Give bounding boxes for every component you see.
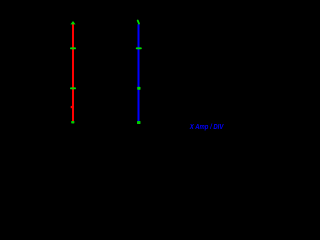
red vector V1 side notch marker: [71, 106, 73, 108]
red vector V1 (left vertical line): [72, 24, 74, 121]
red vector V1 tick mark 1: [70, 47, 76, 49]
blue vector V2 base square (green): [137, 121, 141, 124]
blue vector V2 (right vertical line): [138, 24, 140, 121]
svg-text:X Amp / DIV: X Amp / DIV: [189, 124, 224, 131]
blue vector V2 tick mark 1: [136, 47, 142, 49]
red vector V1 arrowhead (green, pointing up): [71, 21, 76, 24]
blue vector V2 mid square marker: [137, 87, 140, 90]
red vector V1 tick mark 2: [70, 87, 76, 89]
blue vector V2 arrowhead (green, slanted stroke): [138, 21, 139, 24]
red vector V1 base dot (green): [71, 121, 74, 124]
